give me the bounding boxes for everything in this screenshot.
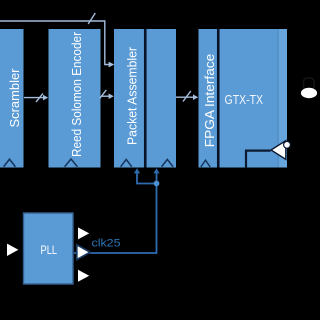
output buffer triangle GTX	[271, 141, 286, 160]
arrow Reed to Packet Assembler	[101, 95, 110, 97]
faint shape above ellipse	[304, 78, 315, 90]
clock triangle FPGA	[201, 160, 210, 167]
clock triangle Reed	[65, 159, 78, 167]
svg-text:FPGA Interface: FPGA Interface	[202, 54, 217, 148]
bus slash top wire	[88, 13, 95, 24]
svg-text:PLL: PLL	[41, 245, 58, 257]
divider Packet pair	[144, 29, 147, 168]
block Scrambler	[0, 29, 24, 168]
clk25 wire from PLL	[74, 184, 157, 254]
bus slash 1	[36, 93, 43, 102]
divider FPGA/GTX	[217, 29, 220, 168]
svg-text:clk25: clk25	[92, 238, 121, 250]
block Reed Solomon Encoder	[49, 29, 101, 168]
clk25 branch to companion	[156, 171, 158, 184]
PLL output triangle middle (clk25)	[77, 245, 90, 260]
divider GTX/sliver (subtle)	[279, 29, 287, 168]
block Packet Assembler (pair)	[114, 29, 176, 168]
PLL block	[24, 213, 74, 284]
clk25 branch to Packet Assembler	[137, 171, 157, 184]
top wire into Packet Assembler	[0, 21, 110, 65]
PLL input triangle	[7, 244, 18, 256]
PLL output triangle top	[78, 227, 89, 239]
output buffer circle GTX	[284, 141, 291, 148]
clock triangle Packet Assembler	[121, 159, 132, 166]
bus slash 2	[100, 90, 107, 98]
block FPGA Interface + GTX-TX	[199, 29, 288, 168]
bus slash 3	[183, 91, 191, 102]
arrowhead top wire	[109, 62, 115, 68]
arrowhead clk Packet Assembler	[134, 168, 140, 173]
PLL output triangle bottom	[78, 270, 89, 282]
arrow companion to FPGA Interface	[176, 96, 195, 98]
junction dot clk25	[154, 181, 160, 187]
svg-text:Scrambler: Scrambler	[7, 68, 22, 128]
svg-text:Reed Solomon Encoder: Reed Solomon Encoder	[69, 31, 84, 157]
clock triangle Scrambler	[4, 159, 16, 167]
arrow Scrambler to Reed	[24, 97, 45, 99]
wire GTX internal (to output buffer)	[246, 151, 271, 168]
white ellipse	[301, 88, 317, 98]
svg-text:GTX-TX: GTX-TX	[225, 92, 264, 107]
svg-text:Packet Assembler: Packet Assembler	[125, 46, 140, 145]
clock triangle Packet companion	[162, 159, 173, 166]
arrowhead clk companion	[153, 168, 159, 173]
